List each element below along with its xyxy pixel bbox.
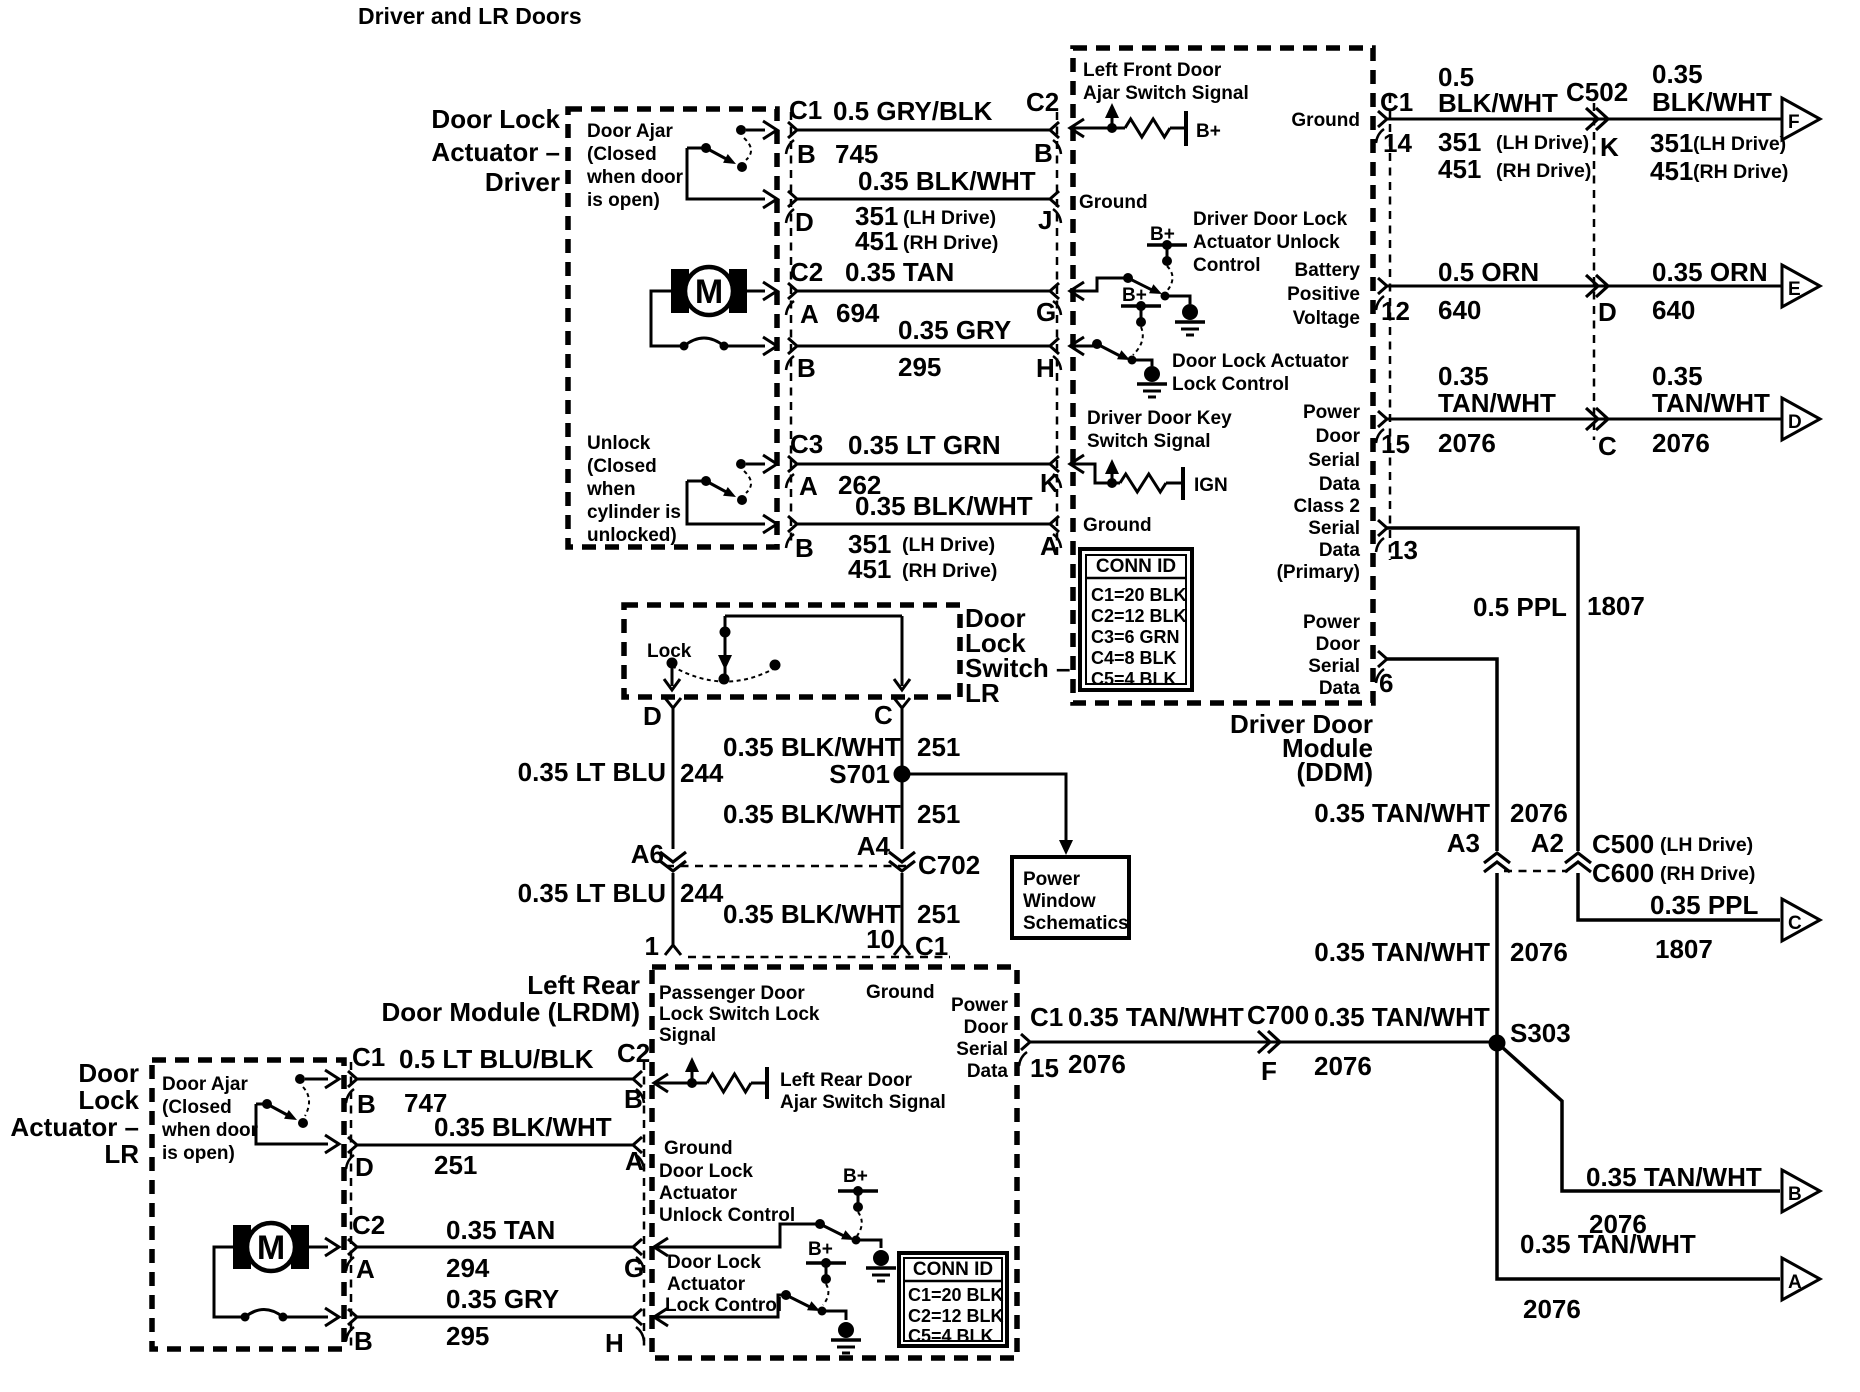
svg-text:F: F bbox=[1261, 1056, 1277, 1086]
svg-text:Door Ajar: Door Ajar bbox=[587, 121, 673, 142]
svg-text:0.35 ORN: 0.35 ORN bbox=[1652, 257, 1768, 287]
svg-text:C1: C1 bbox=[1380, 87, 1413, 117]
svg-text:Actuator –: Actuator – bbox=[10, 1112, 139, 1142]
svg-text:1807: 1807 bbox=[1655, 934, 1713, 964]
svg-text:Power: Power bbox=[951, 995, 1009, 1016]
svg-text:Actuator: Actuator bbox=[667, 1274, 746, 1295]
svg-text:C1=20 BLK: C1=20 BLK bbox=[908, 1285, 1004, 1305]
wire 2076 TAN/WHT pin6 power door serial data bbox=[1378, 651, 1387, 667]
svg-text:S303: S303 bbox=[1510, 1018, 1571, 1048]
unlock control switch LRDM bbox=[654, 1238, 668, 1256]
svg-text:when: when bbox=[586, 479, 636, 500]
wire 640 ORN pin12 to E bbox=[1378, 278, 1387, 294]
svg-text:Battery: Battery bbox=[1295, 260, 1361, 281]
svg-text:when door: when door bbox=[161, 1120, 259, 1141]
svg-text:C4=8 BLK: C4=8 BLK bbox=[1091, 648, 1177, 668]
svg-text:0.35 TAN: 0.35 TAN bbox=[845, 257, 954, 287]
svg-text:Door: Door bbox=[1316, 634, 1361, 655]
svg-text:294: 294 bbox=[446, 1253, 490, 1283]
key switch resistor R2 with IGN bbox=[1070, 455, 1084, 473]
svg-text:745: 745 bbox=[835, 139, 878, 169]
svg-text:A: A bbox=[1788, 1272, 1802, 1293]
svg-text:B: B bbox=[797, 139, 816, 169]
svg-text:TAN/WHT: TAN/WHT bbox=[1438, 388, 1556, 418]
svg-text:0.35: 0.35 bbox=[1438, 361, 1489, 391]
svg-text:Switch Signal: Switch Signal bbox=[1087, 431, 1211, 452]
driver actuator connector line bbox=[790, 112, 793, 547]
svg-text:0.35 GRY: 0.35 GRY bbox=[898, 315, 1011, 345]
left rear door ajar switch resistor R3 bbox=[654, 1074, 668, 1092]
svg-text:C1: C1 bbox=[352, 1042, 385, 1072]
svg-text:A: A bbox=[799, 471, 818, 501]
svg-text:Data: Data bbox=[967, 1061, 1009, 1082]
svg-text:(LH Drive): (LH Drive) bbox=[1496, 132, 1589, 154]
svg-text:K: K bbox=[1600, 132, 1619, 162]
svg-text:Ajar Switch Signal: Ajar Switch Signal bbox=[1083, 83, 1249, 104]
svg-text:(LH Drive): (LH Drive) bbox=[1693, 133, 1786, 155]
splice S303 bbox=[1489, 1035, 1506, 1052]
svg-text:244: 244 bbox=[680, 758, 724, 788]
svg-text:BLK/WHT: BLK/WHT bbox=[1652, 87, 1772, 117]
svg-text:Schematics: Schematics bbox=[1023, 913, 1129, 934]
svg-text:10: 10 bbox=[866, 924, 895, 954]
svg-text:D: D bbox=[795, 207, 814, 237]
svg-text:Serial: Serial bbox=[1308, 518, 1360, 539]
svg-text:D: D bbox=[355, 1152, 374, 1182]
svg-text:C: C bbox=[1788, 913, 1802, 934]
svg-text:when door: when door bbox=[586, 167, 684, 188]
svg-text:Ground: Ground bbox=[1291, 110, 1360, 131]
svg-text:(DDM): (DDM) bbox=[1296, 757, 1373, 787]
svg-text:640: 640 bbox=[1652, 295, 1695, 325]
svg-text:Serial: Serial bbox=[1308, 450, 1360, 471]
LR actuator connector line bbox=[350, 1062, 353, 1352]
LRDM top connector line bbox=[688, 956, 950, 959]
svg-text:A6: A6 bbox=[631, 839, 664, 869]
svg-text:cylinder is: cylinder is bbox=[587, 502, 681, 523]
power window schematics box bbox=[1012, 857, 1129, 938]
wire 747 LT BLU/BLK row1 LR bbox=[348, 1071, 357, 1087]
wire 295 GRY row4 LR bbox=[348, 1309, 357, 1325]
svg-text:C1: C1 bbox=[789, 95, 822, 125]
svg-text:2076: 2076 bbox=[1523, 1294, 1581, 1324]
svg-text:Door Ajar: Door Ajar bbox=[162, 1074, 248, 1095]
svg-text:6: 6 bbox=[1379, 668, 1393, 698]
svg-text:D: D bbox=[1598, 297, 1617, 327]
svg-text:BLK/WHT: BLK/WHT bbox=[1438, 88, 1558, 118]
wire 694 TAN row3 bbox=[788, 283, 797, 299]
svg-text:Voltage: Voltage bbox=[1293, 308, 1360, 329]
svg-text:J: J bbox=[1038, 205, 1052, 235]
motor M LR actuator bbox=[233, 1225, 251, 1269]
svg-text:694: 694 bbox=[836, 298, 880, 328]
svg-text:LR: LR bbox=[104, 1139, 139, 1169]
svg-text:Left Rear: Left Rear bbox=[527, 970, 640, 1000]
svg-text:251: 251 bbox=[917, 732, 960, 762]
svg-text:C702: C702 bbox=[918, 850, 980, 880]
svg-text:13: 13 bbox=[1389, 535, 1418, 565]
svg-text:H: H bbox=[605, 1328, 624, 1358]
svg-text:0.35 LT BLU: 0.35 LT BLU bbox=[518, 878, 666, 908]
svg-text:14: 14 bbox=[1383, 128, 1412, 158]
svg-text:(Closed: (Closed bbox=[587, 144, 657, 165]
svg-text:A: A bbox=[356, 1254, 375, 1284]
svg-text:B+: B+ bbox=[843, 1166, 868, 1187]
svg-text:Power: Power bbox=[1303, 402, 1361, 423]
svg-text:2076: 2076 bbox=[1438, 428, 1496, 458]
svg-text:2076: 2076 bbox=[1314, 1051, 1372, 1081]
door lock actuator - driver box bbox=[568, 109, 777, 547]
svg-text:B+: B+ bbox=[1150, 224, 1175, 245]
svg-text:(RH Drive): (RH Drive) bbox=[903, 232, 998, 254]
door lock actuator LR box bbox=[152, 1060, 344, 1349]
ajar switch signal resistor R1 with B+ bbox=[1070, 119, 1084, 137]
wire 1807 PPL pin13 class 2 serial data bbox=[1378, 520, 1387, 536]
A2 chevron C500 bbox=[1565, 853, 1591, 863]
svg-text:0.5 LT BLU/BLK: 0.5 LT BLU/BLK bbox=[399, 1044, 594, 1074]
svg-text:0.35 BLK/WHT: 0.35 BLK/WHT bbox=[858, 166, 1036, 196]
svg-text:Ground: Ground bbox=[664, 1138, 733, 1159]
svg-text:(RH Drive): (RH Drive) bbox=[902, 560, 997, 582]
svg-text:C1=20 BLK: C1=20 BLK bbox=[1091, 585, 1187, 605]
svg-text:unlocked): unlocked) bbox=[587, 525, 677, 546]
wire S701 to power window schematics bbox=[910, 774, 1066, 840]
svg-text:(Closed: (Closed bbox=[162, 1097, 232, 1118]
svg-text:(LH Drive): (LH Drive) bbox=[902, 534, 995, 556]
door lock actuator lock control switch bbox=[1070, 337, 1084, 355]
svg-text:1: 1 bbox=[645, 931, 659, 961]
svg-text:C3=6 GRN: C3=6 GRN bbox=[1091, 627, 1180, 647]
svg-text:Left Rear Door: Left Rear Door bbox=[780, 1070, 913, 1091]
svg-text:Ajar Switch Signal: Ajar Switch Signal bbox=[780, 1092, 946, 1113]
svg-text:Ground: Ground bbox=[1083, 515, 1152, 536]
svg-text:B+: B+ bbox=[1196, 121, 1221, 142]
svg-text:Lock Control: Lock Control bbox=[1172, 374, 1289, 395]
svg-text:2076: 2076 bbox=[1589, 1209, 1647, 1239]
svg-text:Power: Power bbox=[1303, 612, 1361, 633]
svg-text:Positive: Positive bbox=[1287, 284, 1360, 305]
driver door lock actuator unlock control switch bbox=[1070, 282, 1084, 300]
CONN ID table LRDM bbox=[899, 1253, 1007, 1346]
svg-text:A4: A4 bbox=[857, 831, 891, 861]
svg-text:12: 12 bbox=[1381, 296, 1410, 326]
wire 294 TAN row3 LR bbox=[348, 1239, 357, 1255]
svg-text:Door Lock: Door Lock bbox=[659, 1161, 753, 1182]
svg-text:Data: Data bbox=[1319, 540, 1361, 561]
svg-text:C600: C600 bbox=[1592, 858, 1654, 888]
svg-text:B: B bbox=[1034, 138, 1053, 168]
svg-text:C500: C500 bbox=[1592, 829, 1654, 859]
svg-text:Actuator: Actuator bbox=[659, 1183, 738, 1204]
svg-text:C3: C3 bbox=[790, 429, 823, 459]
svg-text:Door: Door bbox=[1316, 426, 1361, 447]
wire 1807 PPL to C bbox=[1578, 873, 1780, 920]
svg-text:Driver and LR Doors: Driver and LR Doors bbox=[358, 3, 582, 29]
door lock switch LR box bbox=[624, 605, 960, 697]
svg-text:Ground: Ground bbox=[1079, 192, 1148, 213]
svg-text:Door Lock Actuator: Door Lock Actuator bbox=[1172, 351, 1349, 372]
svg-text:B: B bbox=[354, 1326, 373, 1356]
svg-text:F: F bbox=[1788, 112, 1800, 133]
svg-text:B: B bbox=[1788, 1184, 1802, 1205]
svg-text:0.35 TAN/WHT: 0.35 TAN/WHT bbox=[1314, 1002, 1490, 1032]
svg-text:M: M bbox=[257, 1229, 285, 1267]
svg-text:Door Lock: Door Lock bbox=[667, 1252, 761, 1273]
svg-text:D: D bbox=[1788, 412, 1802, 433]
svg-text:0.35 BLK/WHT: 0.35 BLK/WHT bbox=[434, 1112, 612, 1142]
svg-text:CONN ID: CONN ID bbox=[1096, 556, 1176, 577]
DDM right connector line bbox=[1389, 95, 1392, 560]
svg-text:Data: Data bbox=[1319, 678, 1361, 699]
svg-text:451: 451 bbox=[1650, 156, 1693, 186]
svg-text:251: 251 bbox=[917, 799, 960, 829]
wire 251 BLK/WHT row2 LR bbox=[348, 1137, 357, 1153]
svg-text:H: H bbox=[1036, 353, 1055, 383]
svg-text:D: D bbox=[643, 701, 662, 731]
svg-text:A3: A3 bbox=[1447, 828, 1480, 858]
svg-text:0.35 TAN/WHT: 0.35 TAN/WHT bbox=[1314, 937, 1490, 967]
wire 2076 TAN/WHT S303 to A bbox=[1497, 1051, 1780, 1279]
LRDM left connector line bbox=[643, 1062, 646, 1352]
svg-text:C502: C502 bbox=[1566, 77, 1628, 107]
svg-text:Door: Door bbox=[78, 1058, 139, 1088]
A3 chevron C500 bbox=[1484, 853, 1510, 863]
svg-text:Left Front Door: Left Front Door bbox=[1083, 60, 1222, 81]
svg-text:C: C bbox=[1598, 431, 1617, 461]
wire 745 GRY/BLK row1 bbox=[788, 122, 797, 138]
svg-text:Class 2: Class 2 bbox=[1293, 496, 1360, 517]
driver door module DDM box bbox=[1073, 48, 1373, 703]
svg-text:LR: LR bbox=[965, 678, 1000, 708]
svg-text:2076: 2076 bbox=[1652, 428, 1710, 458]
svg-text:Driver Door Key: Driver Door Key bbox=[1087, 408, 1232, 429]
door ajar switch SW1 bbox=[736, 125, 746, 135]
svg-text:0.5 ORN: 0.5 ORN bbox=[1438, 257, 1539, 287]
svg-text:IGN: IGN bbox=[1194, 475, 1228, 496]
svg-text:TAN/WHT: TAN/WHT bbox=[1652, 388, 1770, 418]
svg-text:Passenger Door: Passenger Door bbox=[659, 983, 805, 1004]
svg-text:0.35 BLK/WHT: 0.35 BLK/WHT bbox=[855, 491, 1033, 521]
svg-text:2076: 2076 bbox=[1068, 1049, 1126, 1079]
svg-text:Unlock Control: Unlock Control bbox=[659, 1205, 795, 1226]
svg-text:351: 351 bbox=[1438, 127, 1481, 157]
svg-text:351: 351 bbox=[1650, 128, 1693, 158]
C502 connector line bbox=[1593, 103, 1596, 440]
svg-text:B: B bbox=[795, 533, 814, 563]
svg-text:Unlock: Unlock bbox=[587, 433, 651, 454]
svg-text:Actuator Unlock: Actuator Unlock bbox=[1193, 232, 1340, 253]
svg-text:B+: B+ bbox=[808, 1239, 833, 1260]
svg-text:Serial: Serial bbox=[956, 1039, 1008, 1060]
svg-text:2076: 2076 bbox=[1510, 937, 1568, 967]
svg-text:295: 295 bbox=[898, 352, 941, 382]
left rear door module LRDM box bbox=[652, 967, 1017, 1358]
svg-text:Lock Switch Lock: Lock Switch Lock bbox=[659, 1004, 820, 1025]
svg-text:Door Lock: Door Lock bbox=[431, 104, 560, 134]
wire 262 LT GRN row5 bbox=[788, 456, 797, 472]
svg-text:0.35 PPL: 0.35 PPL bbox=[1650, 890, 1759, 920]
wire 351/451 BLK/WHT row2 bbox=[788, 191, 797, 207]
svg-text:Ground: Ground bbox=[866, 982, 935, 1003]
svg-text:Actuator –: Actuator – bbox=[431, 137, 560, 167]
svg-text:C1: C1 bbox=[1030, 1002, 1063, 1032]
svg-text:251: 251 bbox=[917, 899, 960, 929]
svg-text:C2=12 BLK: C2=12 BLK bbox=[908, 1306, 1004, 1326]
svg-text:is open): is open) bbox=[162, 1143, 235, 1164]
svg-text:C2: C2 bbox=[352, 1210, 385, 1240]
wire 351/451 BLK/WHT row6 bbox=[788, 516, 797, 532]
svg-text:(LH Drive): (LH Drive) bbox=[1660, 834, 1753, 856]
svg-text:Lock: Lock bbox=[78, 1085, 139, 1115]
svg-text:Data: Data bbox=[1319, 474, 1361, 495]
svg-text:0.35 LT BLU: 0.35 LT BLU bbox=[518, 757, 666, 787]
svg-text:244: 244 bbox=[680, 878, 724, 908]
lock control switch LRDM bbox=[654, 1308, 668, 1326]
svg-text:A2: A2 bbox=[1531, 828, 1564, 858]
svg-text:0.35 TAN/WHT: 0.35 TAN/WHT bbox=[1068, 1002, 1244, 1032]
unlock switch SW2 bbox=[736, 459, 746, 469]
svg-text:0.35 GRY: 0.35 GRY bbox=[446, 1284, 559, 1314]
svg-text:C1: C1 bbox=[915, 931, 948, 961]
svg-text:Control: Control bbox=[1193, 255, 1261, 276]
svg-text:0.35: 0.35 bbox=[1652, 361, 1703, 391]
svg-text:Serial: Serial bbox=[1308, 656, 1360, 677]
svg-text:Door Module (LRDM): Door Module (LRDM) bbox=[381, 997, 640, 1027]
svg-text:0.5 PPL: 0.5 PPL bbox=[1473, 592, 1567, 622]
C702 connector line bbox=[666, 865, 910, 868]
C500 C600 connector labels bbox=[1504, 870, 1568, 873]
DDM left connector line bbox=[1056, 112, 1059, 560]
svg-text:S701: S701 bbox=[829, 759, 890, 789]
motor M driver actuator bbox=[671, 269, 689, 313]
svg-text:(RH Drive): (RH Drive) bbox=[1496, 160, 1591, 182]
svg-text:0.35 LT GRN: 0.35 LT GRN bbox=[848, 430, 1001, 460]
svg-text:A: A bbox=[800, 299, 819, 329]
svg-text:B: B bbox=[624, 1084, 643, 1114]
svg-text:Lock Control: Lock Control bbox=[665, 1295, 782, 1316]
svg-text:(RH Drive): (RH Drive) bbox=[1660, 863, 1755, 885]
svg-text:(LH Drive): (LH Drive) bbox=[903, 207, 996, 229]
svg-text:Power: Power bbox=[1023, 869, 1081, 890]
svg-text:E: E bbox=[1788, 279, 1801, 300]
svg-text:0.35 TAN/WHT: 0.35 TAN/WHT bbox=[1314, 798, 1490, 828]
svg-text:Driver Door Lock: Driver Door Lock bbox=[1193, 209, 1348, 230]
svg-text:B: B bbox=[357, 1089, 376, 1119]
svg-text:0.35 BLK/WHT: 0.35 BLK/WHT bbox=[723, 732, 901, 762]
svg-text:15: 15 bbox=[1381, 429, 1410, 459]
svg-text:0.5 GRY/BLK: 0.5 GRY/BLK bbox=[833, 96, 993, 126]
svg-text:C5=4 BLK: C5=4 BLK bbox=[1091, 669, 1177, 689]
svg-text:2076: 2076 bbox=[1510, 798, 1568, 828]
wire 2076 TAN/WHT pin15 to D bbox=[1378, 411, 1387, 427]
door ajar switch LR bbox=[295, 1074, 305, 1084]
svg-text:C: C bbox=[874, 700, 893, 730]
svg-text:Door: Door bbox=[964, 1017, 1009, 1038]
svg-text:451: 451 bbox=[1438, 154, 1481, 184]
svg-text:B: B bbox=[797, 353, 816, 383]
wire 295 GRY row4 bbox=[788, 338, 797, 354]
svg-text:15: 15 bbox=[1030, 1053, 1059, 1083]
svg-text:C5=4 BLK: C5=4 BLK bbox=[908, 1326, 994, 1346]
svg-text:C2: C2 bbox=[617, 1038, 650, 1068]
svg-text:0.35 TAN: 0.35 TAN bbox=[446, 1215, 555, 1245]
svg-text:640: 640 bbox=[1438, 295, 1481, 325]
svg-text:Driver: Driver bbox=[485, 167, 560, 197]
wire 2076 TAN/WHT S303 to B bbox=[1503, 1048, 1780, 1191]
svg-text:0.35: 0.35 bbox=[1652, 59, 1703, 89]
CONN ID table DDM bbox=[1080, 549, 1192, 690]
svg-text:is open): is open) bbox=[587, 190, 660, 211]
svg-text:C700: C700 bbox=[1247, 1000, 1309, 1030]
svg-text:(RH Drive): (RH Drive) bbox=[1693, 161, 1788, 183]
wire 351/451 BLK/WHT pin14 to F bbox=[1378, 111, 1387, 127]
svg-text:M: M bbox=[695, 273, 723, 311]
svg-text:0.35 TAN/WHT: 0.35 TAN/WHT bbox=[1586, 1162, 1762, 1192]
svg-text:Window: Window bbox=[1023, 891, 1096, 912]
wire 2076 TAN/WHT pin15 LRDM to S303 bbox=[1021, 1034, 1030, 1050]
svg-text:(Primary): (Primary) bbox=[1277, 562, 1360, 583]
wire 244 LT BLU lower bbox=[672, 873, 675, 945]
svg-text:C2: C2 bbox=[1026, 87, 1059, 117]
svg-text:251: 251 bbox=[434, 1150, 477, 1180]
svg-text:A: A bbox=[625, 1146, 644, 1176]
pins 1 and 10 into LRDM bbox=[665, 945, 681, 955]
svg-text:451: 451 bbox=[848, 554, 891, 584]
svg-text:Signal: Signal bbox=[659, 1025, 716, 1046]
svg-text:1807: 1807 bbox=[1587, 591, 1645, 621]
svg-text:G: G bbox=[624, 1253, 644, 1283]
svg-text:295: 295 bbox=[446, 1321, 489, 1351]
svg-text:G: G bbox=[1036, 297, 1056, 327]
svg-text:C2=12 BLK: C2=12 BLK bbox=[1091, 606, 1187, 626]
svg-text:CONN ID: CONN ID bbox=[913, 1259, 993, 1280]
svg-text:C2: C2 bbox=[790, 257, 823, 287]
svg-text:451: 451 bbox=[855, 226, 898, 256]
svg-text:0.35 BLK/WHT: 0.35 BLK/WHT bbox=[723, 799, 901, 829]
svg-text:(Closed: (Closed bbox=[587, 456, 657, 477]
